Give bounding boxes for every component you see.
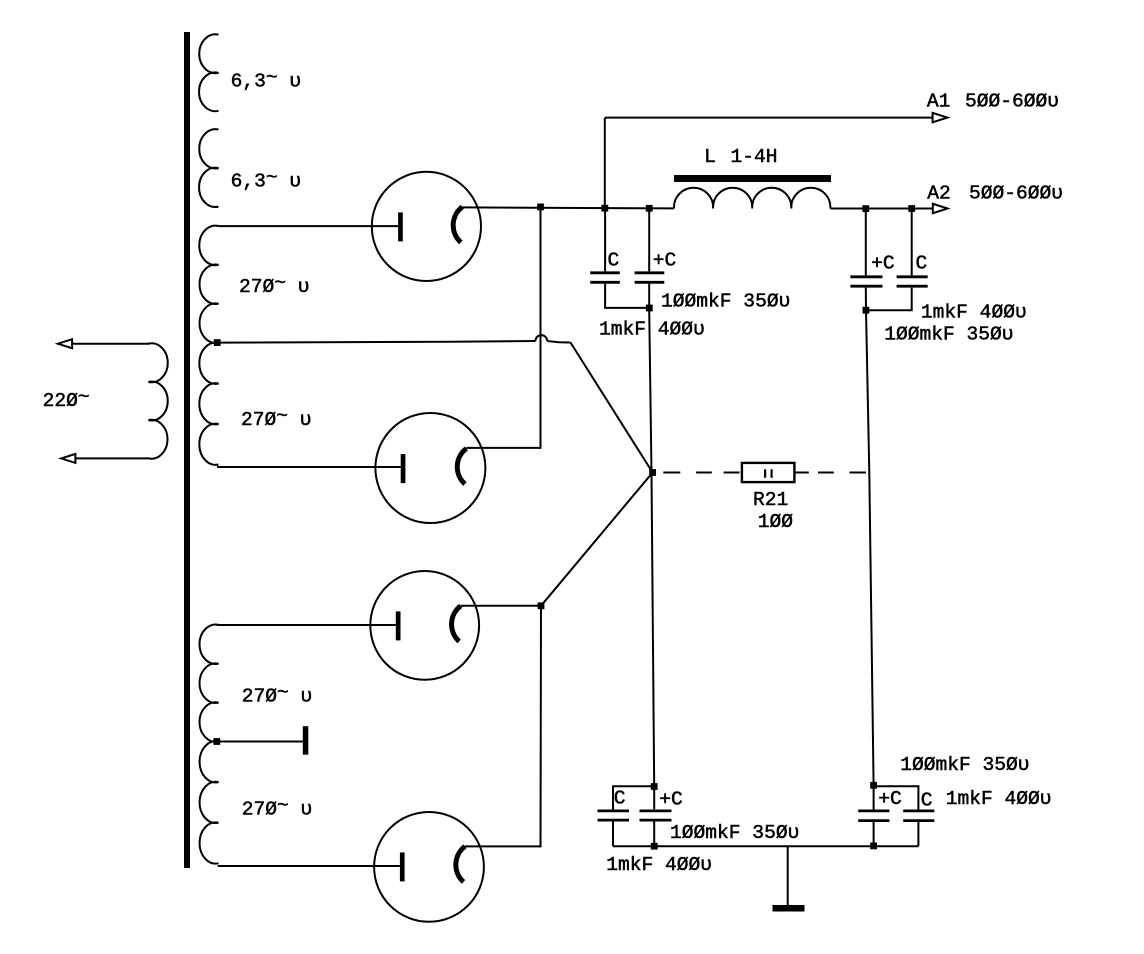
wire winding S5 to V3 plate — [217, 624, 396, 626]
capacitor C8 stem lower — [917, 822, 919, 846]
capacitor C8 bottom-right branch — [874, 786, 919, 809]
svg-text:A2: A2 — [927, 183, 951, 205]
secondary winding 270V #4 — [200, 741, 219, 863]
junction V1 output at bus — [537, 204, 544, 211]
wire hop to diagonal start — [547, 341, 570, 343]
svg-text:27Ø~ υ: 27Ø~ υ — [242, 682, 313, 708]
junction C1 bottom link — [646, 305, 653, 312]
wire tap S5/S6 to terminal — [220, 741, 303, 743]
svg-text:1mkF 4ØØυ: 1mkF 4ØØυ — [606, 854, 712, 876]
inductor L coil — [674, 188, 830, 209]
svg-text:1ØØ: 1ØØ — [758, 511, 794, 533]
wire winding S6 to V4 plate — [218, 865, 400, 867]
wire dashed R21 to right rail — [794, 472, 866, 474]
svg-text:L: L — [704, 146, 716, 168]
capacitor C7 bottom-right electrolytic stem — [873, 785, 875, 809]
capacitor C5 plates — [598, 811, 630, 820]
ground stem — [787, 846, 789, 906]
wire bus V1-V2 vertical — [466, 207, 540, 448]
tube V3 cathode — [452, 606, 461, 642]
inductor L core bar — [674, 175, 831, 182]
ground bar — [773, 905, 805, 912]
junction S5/S6 center tap — [213, 738, 220, 745]
arrow primary bottom terminal — [61, 454, 75, 463]
junction V3 output at bus — [538, 602, 545, 609]
secondary winding 270V #1 — [199, 226, 218, 343]
svg-text:6,3~ υ: 6,3~ υ — [231, 167, 302, 193]
secondary winding 6,3V #2 — [199, 129, 218, 207]
junction A1 branch — [601, 205, 608, 212]
capacitor C1 plates — [590, 273, 620, 283]
svg-text:+C: +C — [659, 789, 683, 811]
svg-text:C: C — [608, 250, 620, 272]
left rail vertical — [649, 284, 654, 787]
junction bottom-left caps top — [651, 783, 658, 790]
svg-text:C: C — [921, 789, 933, 811]
junction right rail top — [862, 205, 869, 212]
arrow A2 output — [933, 204, 948, 213]
svg-text:5ØØ-6ØØυ: 5ØØ-6ØØυ — [965, 91, 1059, 113]
junction bottom-right caps top — [870, 782, 877, 789]
svg-text:22Ø~: 22Ø~ — [43, 387, 90, 413]
wire diagonal center tap to node — [571, 343, 653, 473]
svg-text:A1: A1 — [927, 91, 951, 113]
svg-text:1mkF 4ØØυ: 1mkF 4ØØυ — [921, 301, 1027, 323]
wire bottom common line — [613, 845, 918, 847]
svg-text:5ØØ-6ØØυ: 5ØØ-6ØØυ — [969, 183, 1063, 205]
wire main line inductor to A2 arrow — [830, 208, 933, 210]
junction bottom line right — [870, 843, 877, 850]
wire V3 cathode to bus junction — [461, 605, 541, 607]
capacitor C1 top-left stem upper — [604, 208, 606, 271]
resistor R21 ticks — [765, 469, 772, 478]
capacitor C4 plates — [897, 277, 928, 286]
junction S3/S4 center tap — [214, 339, 221, 346]
wire primary top lead — [72, 343, 150, 345]
arrow primary top terminal — [58, 339, 72, 348]
tube V2 cathode — [457, 449, 466, 485]
capacitor C5 bottom-left branch — [613, 786, 654, 809]
capacitor C4 stem lower — [866, 288, 912, 311]
tube V2 plate — [401, 454, 406, 483]
svg-text:1mkF 4ØØυ: 1mkF 4ØØυ — [946, 788, 1052, 810]
right rail vertical — [866, 288, 874, 786]
wire primary bottom lead — [75, 457, 150, 459]
wire V1 cathode to main line — [462, 207, 674, 208]
capacitor C6 stem lower — [653, 822, 655, 847]
svg-text:27Ø~ υ: 27Ø~ υ — [239, 273, 310, 299]
resistor R21 body — [742, 463, 795, 482]
secondary winding 6,3V #1 — [199, 34, 218, 111]
svg-text:1ØØmkF 35Øυ: 1ØØmkF 35Øυ — [900, 754, 1029, 776]
wire bus V3-V4 vertical — [465, 606, 541, 847]
tube V3 plate — [396, 611, 401, 640]
capacitor C1 stem lower — [605, 284, 649, 308]
capacitor C7 stem lower — [873, 822, 875, 846]
primary winding 220V — [149, 343, 168, 458]
svg-text:+C: +C — [653, 250, 677, 272]
tube diode V1 envelope — [372, 172, 481, 281]
tube V1 plate — [398, 212, 403, 241]
svg-text:1ØØmkF 35Øυ: 1ØØmkF 35Øυ — [670, 822, 799, 844]
svg-text:27Ø~ υ: 27Ø~ υ — [241, 406, 312, 432]
svg-text:27Ø~ υ: 27Ø~ υ — [242, 795, 313, 821]
capacitor C2 top-left electrolytic stem upper — [648, 208, 650, 271]
arrow A1 output — [933, 113, 948, 122]
wire winding S3 to V1 plate — [219, 225, 399, 227]
tube diode V3 envelope — [370, 571, 479, 680]
tube V4 cathode — [456, 846, 465, 882]
wire winding S4 to V2 plate — [217, 466, 401, 468]
wire center tap S3/S4 to hop — [220, 341, 535, 343]
capacitor C6 bottom-left electrolytic stem — [653, 787, 655, 810]
svg-text:C: C — [916, 253, 928, 275]
tube V1 cathode — [453, 207, 462, 243]
wire hop over bus — [535, 335, 547, 341]
junction C4 branch top — [908, 205, 915, 212]
secondary winding 270V #3 — [199, 625, 218, 742]
capacitor C7 plates — [858, 811, 889, 821]
wire diagonal node to bus V3-V4 — [541, 473, 653, 606]
capacitor C3 top-right electrolytic stem upper — [865, 209, 867, 276]
junction C4 bottom link — [863, 307, 870, 314]
capacitor C8 plates — [903, 811, 934, 821]
capacitor C5 stem lower — [612, 822, 614, 847]
capacitor C4 top-right stem upper — [911, 209, 913, 276]
svg-text:1ØØmkF 35Øυ: 1ØØmkF 35Øυ — [884, 324, 1013, 346]
svg-text:+C: +C — [871, 253, 895, 275]
secondary winding 270V #2 — [199, 343, 218, 465]
terminal bar at winding tap — [303, 726, 309, 755]
wire A1 branch vertical — [604, 118, 606, 209]
tube diode V4 envelope — [374, 812, 484, 922]
capacitor C6 plates — [640, 811, 672, 820]
junction node at R21 row — [649, 469, 656, 476]
svg-text:C: C — [614, 788, 626, 810]
wire A1 horizontal to arrow — [605, 117, 933, 119]
junction left rail top — [646, 205, 653, 212]
svg-text:1ØØmkF 35Øυ: 1ØØmkF 35Øυ — [661, 290, 790, 312]
svg-text:+C: +C — [878, 788, 902, 810]
capacitor C3 plates — [850, 277, 882, 286]
tube V4 plate — [400, 852, 405, 881]
svg-text:6,3~ υ: 6,3~ υ — [231, 67, 302, 93]
junction bottom line left — [651, 843, 658, 850]
wire dashed node to R21 — [663, 472, 739, 474]
svg-text:1mkF 4ØØυ: 1mkF 4ØØυ — [599, 319, 705, 341]
svg-text:R21: R21 — [753, 489, 788, 511]
tube diode V2 envelope — [375, 413, 485, 523]
svg-text:1-4H: 1-4H — [731, 146, 778, 168]
transformer core — [184, 32, 190, 868]
capacitor C2 plates — [635, 273, 665, 283]
